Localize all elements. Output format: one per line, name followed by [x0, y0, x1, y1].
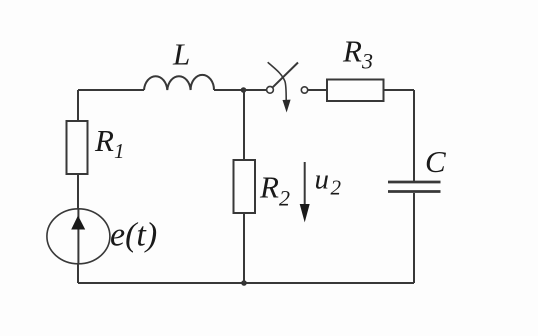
resistor R2 [234, 160, 256, 213]
wire R1 to source [77, 174, 79, 209]
resistor R3 [327, 80, 384, 102]
u2 arrow [304, 162, 306, 205]
wire node to switch [244, 89, 267, 91]
switch right contact circle [301, 87, 307, 93]
svg-text:u2: u2 [315, 164, 342, 200]
node junction top [241, 87, 247, 93]
source e(t) circle [47, 209, 110, 264]
switch blade [273, 63, 298, 88]
switch left contact circle [267, 86, 274, 93]
wire middle vertical upper [243, 90, 245, 160]
capacitor C [388, 181, 441, 184]
wire middle vertical lower [243, 213, 245, 283]
source arrow [71, 216, 85, 230]
wire right vertical upper [413, 90, 415, 181]
inductor L [144, 75, 214, 90]
wire bottom [78, 282, 414, 284]
svg-text:L: L [172, 37, 190, 72]
switch motion arrow [268, 62, 287, 100]
svg-text:R2: R2 [259, 170, 290, 211]
wire inductor to node [214, 89, 244, 91]
source internal wire [77, 209, 79, 264]
svg-text:R3: R3 [342, 34, 373, 74]
wire source to bottom [77, 264, 79, 283]
wire top-left horizontal [78, 89, 144, 91]
wire left vertical upper [77, 90, 79, 121]
resistor R1 [67, 121, 88, 174]
node junction bottom [241, 280, 247, 286]
svg-text:e(t): e(t) [110, 217, 157, 254]
svg-text:R1: R1 [94, 123, 124, 163]
wire switch to R3 [308, 89, 327, 91]
svg-text:C: C [425, 144, 446, 179]
wire right vertical lower [413, 193, 415, 283]
wire R3 to right corner [384, 89, 415, 91]
